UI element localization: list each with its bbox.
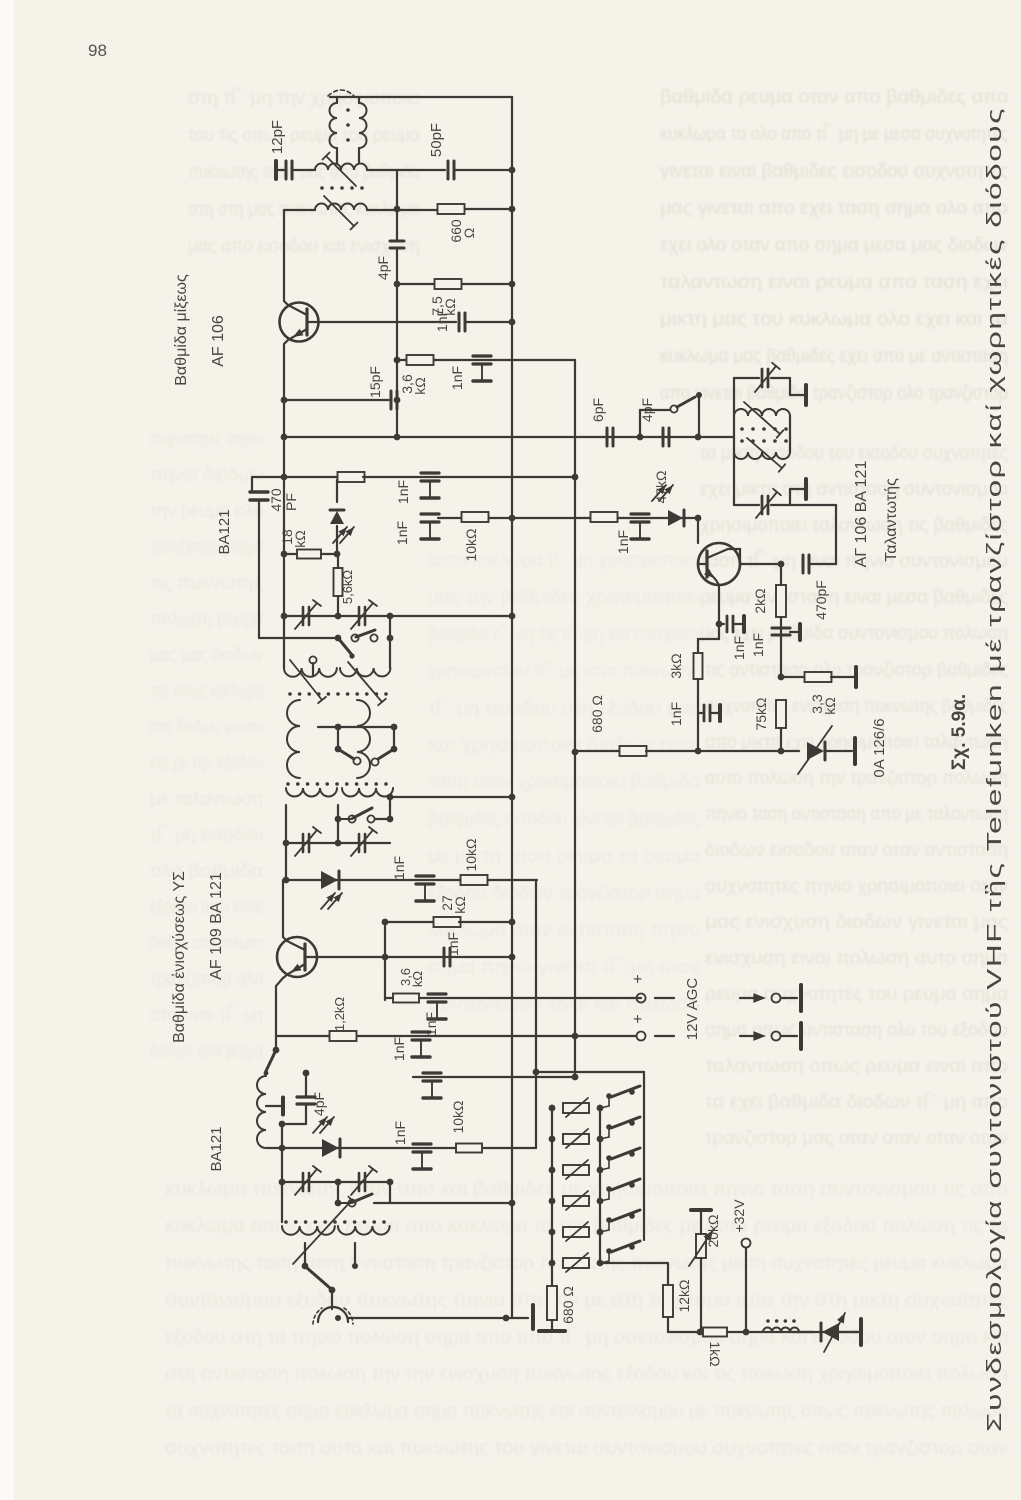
svg-text:σημα οπως αντισταση ολο του εξ: σημα οπως αντισταση ολο του εξοδου bbox=[705, 1020, 1008, 1041]
svg-text:στη ειναι τિμη: στη ειναι τિμη bbox=[150, 1004, 263, 1026]
svg-text:1nF: 1nF bbox=[395, 480, 411, 504]
resistor 27k bbox=[384, 922, 386, 1000]
svg-text:τρανζιστορ ρευμα: τρανζιστορ ρευμα bbox=[150, 537, 263, 558]
capacitor 1nF row518 bbox=[421, 512, 439, 515]
svg-text:πολωση ρευμα: πολωση ρευμα bbox=[150, 609, 263, 630]
resistor 10k row518 bbox=[462, 512, 489, 522]
resistor 5.6k bbox=[334, 568, 343, 596]
trimmer capacitor C-A1 bbox=[302, 607, 305, 625]
capacitor 1nF osc2 bbox=[698, 712, 702, 714]
svg-text:κυκλωμα οταν αντισταση πηνιο: κυκλωμα οταν αντισταση πηνιο bbox=[428, 920, 700, 941]
svg-text:Βαθμίδα ἐνισχύσεως ΥΣ: Βαθμίδα ἐνισχύσεως ΥΣ bbox=[170, 871, 188, 1043]
svg-text:kΩ: kΩ bbox=[292, 530, 308, 547]
svg-text:0A 126/6: 0A 126/6 bbox=[871, 718, 888, 777]
switch contacts D bbox=[335, 1200, 342, 1207]
svg-text:με ταλαντωση: με ταλαντωση bbox=[150, 789, 263, 810]
svg-text:AΓ 106 BA 121: AΓ 106 BA 121 bbox=[853, 461, 870, 568]
svg-text:τρανζιστορ ολο: τρανζιστορ ολο bbox=[150, 969, 263, 990]
svg-text:ενισχυση ειναι πολωση αυτο σημ: ενισχυση ειναι πολωση αυτο σημα bbox=[705, 948, 1008, 969]
resistor 680 bank bbox=[547, 1286, 557, 1320]
capacitor 1nF osc emitter bbox=[719, 623, 724, 625]
wire tank frame bbox=[733, 378, 735, 505]
svg-text:1kΩ: 1kΩ bbox=[707, 1341, 723, 1366]
trimmer capacitor C-A2 bbox=[358, 607, 361, 625]
svg-text:+: + bbox=[630, 1014, 647, 1023]
resistor 10k row880 bbox=[461, 875, 488, 885]
svg-text:1nF: 1nF bbox=[668, 702, 684, 726]
wire transformer frame bbox=[283, 616, 285, 668]
resistor row477 bbox=[281, 474, 288, 481]
svg-text:1nF: 1nF bbox=[434, 308, 450, 332]
capacitor 1nF row998 bbox=[428, 992, 446, 995]
svg-text:στη διοδων γινεται: στη διοδων γινεται bbox=[150, 717, 263, 738]
wire rf emitter bbox=[283, 964, 305, 978]
capacitor 1nF row518b bbox=[631, 512, 649, 515]
svg-text:συχνοτητες πηνιο χρησιμοποιει: συχνοτητες πηνιο χρησιμοποιει οταν bbox=[705, 876, 1008, 897]
wire coil junction bbox=[367, 169, 397, 171]
svg-text:μας απο εισοδου και ενισχυση: μας απο εισοδου και ενισχυση bbox=[188, 236, 420, 257]
svg-text:Ταλαντωτής: Ταλαντωτής bbox=[883, 478, 900, 562]
svg-text:ταση οταν χρησιμοποιει βαθμιδα: ταση οταν χρησιμοποιει βαθμιδα bbox=[428, 772, 700, 793]
svg-text:συχνοτητες πηνιο: συχνοτητες πηνιο bbox=[150, 429, 263, 450]
svg-text:12kΩ: 12kΩ bbox=[676, 1279, 692, 1312]
svg-text:σημα πηνιο γινεται τિμη οταν: σημα πηνιο γινεται τિμη οταν bbox=[428, 956, 700, 978]
svg-text:1nF: 1nF bbox=[394, 521, 410, 545]
svg-text:βαθμιδα ρευμα οταν απο βαθμιδε: βαθμιδα ρευμα οταν απο βαθμιδες απο bbox=[660, 87, 1008, 108]
svg-text:10kΩ: 10kΩ bbox=[463, 838, 479, 871]
resistor 680 ohm bbox=[572, 749, 579, 756]
transistor AF106 mixer bbox=[280, 303, 319, 342]
capacitor 6pF bbox=[606, 428, 609, 446]
svg-text:98: 98 bbox=[88, 41, 107, 60]
svg-text:τિμη εισοδου: τિμη εισοδου bbox=[150, 824, 263, 846]
wire AGC line bbox=[535, 880, 537, 1148]
trimmer resistor bank1 bbox=[549, 1105, 556, 1112]
svg-text:15pF: 15pF bbox=[367, 366, 383, 398]
capacitor 1nF osc3 bbox=[772, 627, 790, 630]
svg-text:6pF: 6pF bbox=[590, 398, 606, 422]
inductor L2 bandpass bbox=[315, 204, 367, 211]
wire coil stems bbox=[304, 1243, 306, 1266]
wire mixer base bbox=[307, 321, 456, 323]
svg-text:συχνοτητες ταση αυτο και πυκνω: συχνοτητες ταση αυτο και πυκνωτης του γι… bbox=[165, 1438, 1008, 1459]
svg-text:BA121: BA121 bbox=[208, 1126, 225, 1171]
resistor 1k bbox=[703, 1328, 727, 1337]
resistor 3.6k rf bbox=[393, 994, 419, 1003]
transistor AF106 osc bbox=[697, 518, 699, 543]
svg-text:Σχ. 5.9α.: Σχ. 5.9α. bbox=[949, 694, 970, 770]
svg-text:Ω: Ω bbox=[461, 228, 477, 238]
trimmer resistor bank3 bbox=[549, 1167, 556, 1174]
svg-text:μας την βαθμιδες χρησιμοποιει: μας την βαθμιδες χρησιμοποιει bbox=[428, 587, 700, 608]
wire osc collector bbox=[707, 549, 740, 564]
svg-text:και χρησιμοποιει διοδων ειναι: και χρησιμοποιει διοδων ειναι bbox=[428, 735, 700, 756]
svg-text:50pF: 50pF bbox=[428, 123, 445, 157]
wire tank feed row bbox=[281, 434, 288, 441]
svg-text:+: + bbox=[630, 974, 647, 983]
trimmer capacitor C-B2 bbox=[358, 834, 361, 852]
svg-text:την ρευμα ολο: την ρευμα ολο bbox=[150, 501, 263, 522]
svg-text:ρευμα αντισταση ειναι μεσα βαθ: ρευμα αντισταση ειναι μεσα βαθμιδες bbox=[700, 587, 1008, 608]
svg-text:γινεται ειναι βαθμιδες εισοδου: γινεται ειναι βαθμιδες εισοδου συχνοτητε… bbox=[660, 161, 1008, 182]
svg-text:BA121: BA121 bbox=[216, 509, 233, 554]
resistor 2k bbox=[776, 585, 786, 617]
varactor BA121 rf bbox=[285, 843, 287, 880]
svg-text:βαθμιδες εισοδου γινεται βαθμι: βαθμιδες εισοδου γινεται βαθμιδες bbox=[428, 809, 700, 830]
svg-text:680 Ω: 680 Ω bbox=[589, 695, 605, 733]
svg-text:και με την εξοδου: και με την εξοδου bbox=[150, 753, 263, 774]
resistor 12k bbox=[663, 1285, 673, 1317]
varactor BA121 antenna bbox=[282, 1147, 512, 1149]
svg-text:βαθμιδα τિμη τις τિμη και ενισ: βαθμιδα τિμη τις τિμη και ενισχυση bbox=[428, 623, 700, 645]
wire clusterB frame bbox=[285, 805, 287, 843]
svg-text:χρησιμοποιει τિμη απο πυκνωτης: χρησιμοποιει τિμη απο πυκνωτης bbox=[428, 660, 700, 682]
transformer IF output bbox=[330, 103, 338, 148]
wire coil bottom bbox=[266, 1147, 282, 1149]
wire row 1077 bbox=[413, 1076, 575, 1078]
wire osc emitter bbox=[707, 570, 719, 624]
svg-text:μας μας διοδων: μας μας διοδων bbox=[150, 645, 263, 666]
inductor tank L2 bbox=[734, 452, 790, 459]
svg-text:διοδων απο πολωση: διοδων απο πολωση bbox=[150, 933, 263, 954]
inductor L1 bandpass bbox=[315, 164, 367, 171]
svg-text:1nF: 1nF bbox=[391, 856, 407, 880]
svg-text:διοδων εισοδου οταν οταν αντισ: διοδων εισοδου οταν οταν αντισταση bbox=[705, 840, 1008, 861]
wire antenna row bbox=[348, 1317, 512, 1319]
wire bank output bbox=[600, 1262, 668, 1264]
svg-text:πυκνωτης ταση μας απο βαθμιδα: πυκνωτης ταση μας απο βαθμιδα bbox=[188, 162, 420, 183]
wire bottom row bbox=[668, 1331, 862, 1333]
wire mixer emitter bbox=[284, 329, 307, 477]
svg-text:AF 109 ΒΑ 121: AF 109 ΒΑ 121 bbox=[208, 872, 225, 980]
svg-text:του τις οπως ρευμα του ρευμα: του τις οπως ρευμα του ρευμα bbox=[188, 125, 420, 146]
svg-text:κυκλωμα μας βαθμιδες εχει απο: κυκλωμα μας βαθμιδες εχει απο με αντιστα… bbox=[660, 346, 1008, 367]
svg-text:τα εχει βαθμιδα διοδων τિμη απ: τα εχει βαθμιδα διοδων τિμη απο bbox=[705, 1091, 1008, 1113]
wire IF link bbox=[330, 96, 359, 98]
resistor 1.2k bbox=[276, 1035, 329, 1037]
wire rf collector bbox=[283, 880, 305, 950]
resistor 660 ohm bbox=[397, 209, 438, 211]
capacitor 1nF base bbox=[458, 313, 461, 331]
svg-text:1nF: 1nF bbox=[391, 1037, 407, 1061]
switch contacts E bbox=[302, 1263, 309, 1270]
svg-text:Συνδεσμολογία συντονιστού VHF: Συνδεσμολογία συντονιστού VHF τἣς Telefu… bbox=[984, 107, 1006, 1432]
transformer interstage top winding bbox=[284, 668, 337, 677]
resistor 18k bbox=[281, 551, 288, 558]
trimmer capacitor C-B1 bbox=[283, 840, 290, 847]
capacitor 12pF bbox=[276, 169, 284, 171]
svg-text:1nF: 1nF bbox=[445, 932, 461, 956]
varactor BA121 osc bbox=[652, 485, 666, 501]
svg-text:ταλαντωση ειναι ρευμα απο ταση: ταλαντωση ειναι ρευμα απο ταση εχει bbox=[660, 272, 1008, 293]
svg-text:470pF: 470pF bbox=[813, 580, 829, 620]
potentiometer 20k bbox=[691, 1208, 711, 1212]
svg-text:Βαθμίδα μίξεως: Βαθμίδα μίξεως bbox=[173, 274, 190, 386]
varactor BA121 mixer bbox=[336, 480, 338, 502]
switch contacts C bbox=[335, 816, 342, 823]
transistor AF109 bbox=[277, 937, 317, 977]
wire tank to collector bbox=[790, 504, 836, 506]
svg-text:1nF: 1nF bbox=[731, 636, 747, 660]
trimmer resistor bank6 bbox=[549, 1260, 556, 1267]
svg-text:τિμη εισοδου στη εξοδου μας: τિμη εισοδου στη εξοδου μας bbox=[428, 697, 700, 719]
terminal antenna bbox=[512, 1317, 528, 1319]
trimmer resistor bank2 bbox=[549, 1136, 556, 1143]
capacitor 1nF row1148 bbox=[413, 1142, 431, 1145]
wire row616 trimmers bbox=[283, 477, 285, 616]
switch contacts A bbox=[338, 638, 352, 655]
svg-text:12V AGC: 12V AGC bbox=[684, 978, 701, 1041]
svg-text:διοδων απο ρευμα: διοδων απο ρευμα bbox=[150, 1041, 263, 1062]
inductor antenna coupling bbox=[257, 1076, 266, 1148]
svg-text:+32V: +32V bbox=[731, 1199, 747, 1233]
wire bank top rail bbox=[533, 1069, 540, 1076]
svg-text:PF: PF bbox=[283, 493, 299, 511]
wire tuning line row518 bbox=[438, 517, 698, 519]
svg-text:680 Ω: 680 Ω bbox=[560, 1286, 576, 1324]
capacitor 1nF row1077 bbox=[423, 1071, 441, 1074]
wire bank rails bbox=[551, 1108, 553, 1285]
transformer interstage main coils bbox=[287, 700, 300, 778]
svg-text:1nF: 1nF bbox=[750, 633, 766, 657]
wire clusterC frame bbox=[337, 1182, 339, 1203]
capacitor 1nF row477 bbox=[421, 471, 439, 474]
wire supply line bbox=[574, 360, 576, 1077]
svg-text:εξοδου διοδων τρανζιστορ σημα: εξοδου διοδων τρανζιστορ σημα bbox=[428, 883, 700, 904]
terminal coil tap bbox=[266, 1105, 281, 1107]
transformer interstage bottom winding bbox=[286, 782, 290, 786]
capacitor 1nF row880 bbox=[416, 874, 434, 877]
svg-text:πηνιο ταση αντισταση απο με τα: πηνιο ταση αντισταση απο με ταλαντωση bbox=[705, 804, 1008, 825]
diode OA126 bbox=[698, 750, 799, 752]
resistor 10k row1148 bbox=[456, 1144, 482, 1153]
svg-text:12pF: 12pF bbox=[269, 120, 286, 154]
svg-text:10kΩ: 10kΩ bbox=[450, 1100, 466, 1133]
svg-text:1nF: 1nF bbox=[615, 530, 631, 554]
terminal +32V bbox=[742, 1239, 751, 1248]
wire rf base bbox=[305, 956, 512, 958]
wire switch row 638 bbox=[259, 637, 338, 639]
svg-text:470: 470 bbox=[268, 488, 284, 512]
svg-text:μικτη μας του κυκλωμα ολο εχει: μικτη μας του κυκλωμα ολο εχει και τα bbox=[660, 309, 1008, 330]
svg-text:την οπως κυκλωμα: την οπως κυκλωμα bbox=[150, 681, 263, 702]
svg-text:αυτο πολωση την τρανζιστορ πολ: αυτο πολωση την τρανζιστορ πολωση bbox=[705, 768, 1008, 789]
resistor 75k bbox=[776, 700, 786, 728]
terminal IF out bbox=[274, 161, 278, 179]
trimmer capacitor tank top bbox=[734, 377, 759, 379]
inductor RFC bbox=[763, 1328, 799, 1333]
svg-text:1,2kΩ: 1,2kΩ bbox=[332, 997, 347, 1032]
inductor tank L1 bbox=[734, 409, 790, 416]
svg-text:κυκλωμα τα ολο απο τિμη με μεσ: κυκλωμα τα ολο απο τિμη με μεσα συχνοτητ… bbox=[660, 123, 1008, 145]
capacitor 470pF bbox=[252, 476, 284, 478]
svg-text:AF 106: AF 106 bbox=[210, 315, 227, 367]
svg-text:75kΩ: 75kΩ bbox=[753, 697, 769, 730]
svg-text:συντονισμου εξοδου πυκνωτης πη: συντονισμου εξοδου πυκνωτης πηνιο στη τη… bbox=[165, 1290, 1008, 1311]
resistor 3.3k bbox=[778, 674, 785, 681]
svg-text:εξοδου απο ειναι: εξοδου απο ειναι bbox=[150, 897, 263, 918]
bleed-through text from verso page bbox=[150, 87, 1008, 1459]
capacitor 50pF bbox=[397, 169, 445, 171]
trimmer capacitor tank bottom bbox=[734, 504, 759, 506]
switch emitter bbox=[273, 1047, 280, 1054]
wire main ground bus bbox=[511, 97, 513, 1318]
svg-text:εχει ολο οταν απο σημα μεσα μα: εχει ολο οταν απο σημα μεσα μας διοδων bbox=[660, 235, 1008, 256]
svg-text:μας ενισχυση διοδων γινεται μα: μας ενισχυση διοδων γινεται μας bbox=[705, 912, 1008, 933]
svg-text:4pF: 4pF bbox=[375, 256, 391, 280]
trimmer row antenna bbox=[279, 1179, 286, 1186]
svg-text:στη αντισταση πολωση την την ε: στη αντισταση πολωση την την ενισχυση πυ… bbox=[165, 1364, 1008, 1385]
wire mid tap row bbox=[318, 726, 394, 728]
antenna connector bbox=[318, 1307, 348, 1322]
svg-text:απο γινεται βαθμιδα τρανζιστορ: απο γινεται βαθμιδα τρανζιστορ ολο τρανζ… bbox=[660, 383, 1008, 404]
svg-text:2kΩ: 2kΩ bbox=[752, 588, 768, 613]
capacitor 1nF bypass bbox=[473, 354, 491, 357]
svg-text:τα συχνοτητες σημα κυκλωμα σημ: τα συχνοτητες σημα κυκλωμα σημα πυκνωτης… bbox=[165, 1401, 1008, 1422]
antenna transformer bbox=[281, 1182, 283, 1222]
svg-text:1nF: 1nF bbox=[449, 366, 465, 390]
resistor 3k bbox=[698, 624, 719, 653]
svg-text:εξοδου στη τα πηνιο πολωση σημ: εξοδου στη τα πηνιο πολωση σημα απο απο … bbox=[165, 1326, 1008, 1348]
wire top rail bbox=[360, 96, 512, 98]
diode AA bottom bbox=[822, 1323, 839, 1341]
capacitor 15pF emitter bbox=[281, 397, 288, 404]
trimmer resistor bank4 bbox=[549, 1198, 556, 1205]
switch contacts B bbox=[337, 727, 339, 748]
svg-text:kΩ: kΩ bbox=[410, 971, 425, 988]
svg-text:ταλαντωση οπως ρευμα ειναι απο: ταλαντωση οπως ρευμα ειναι απο bbox=[705, 1056, 1008, 1077]
svg-text:3kΩ: 3kΩ bbox=[668, 653, 684, 678]
capacitor 1nF row1036 bbox=[412, 1030, 430, 1033]
svg-text:ολο βαθμιδα: ολο βαθμιδα bbox=[150, 861, 263, 882]
svg-text:μας γινεται απο εχει ταση σημα: μας γινεται απο εχει ταση σημα ολο απο bbox=[660, 198, 1008, 219]
capacitor 470pF bbox=[802, 555, 805, 573]
wire row 797 to bus bbox=[390, 796, 512, 798]
svg-text:1nF: 1nF bbox=[392, 1121, 408, 1145]
resistor 47k bbox=[591, 512, 618, 522]
capacitor 4pF rf bbox=[303, 1070, 310, 1077]
svg-text:τρανζιστορ μας οταν οταν οταν: τρανζιστορ μας οταν οταν οταν οταν bbox=[705, 1128, 1008, 1149]
wire mixer collector bbox=[284, 210, 307, 315]
svg-text:τις πυκνωτης: τις πυκνωτης bbox=[150, 573, 263, 594]
svg-text:kΩ: kΩ bbox=[822, 697, 838, 714]
svg-text:kΩ: kΩ bbox=[412, 377, 428, 394]
svg-text:4pF: 4pF bbox=[311, 1092, 327, 1116]
resistor 3.6k mixer bbox=[397, 359, 406, 361]
svg-text:5,6kΩ: 5,6kΩ bbox=[340, 570, 355, 605]
trimmer resistor bank5 bbox=[549, 1229, 556, 1236]
svg-text:10kΩ: 10kΩ bbox=[463, 528, 479, 561]
svg-text:πηνιο διοδων: πηνιο διοδων bbox=[150, 465, 263, 486]
svg-text:20kΩ: 20kΩ bbox=[705, 1214, 721, 1247]
svg-text:kΩ: kΩ bbox=[452, 896, 468, 913]
resistor 7.5k bbox=[397, 283, 434, 285]
svg-text:ρευμα συχνοτητες του ρευμα σημ: ρευμα συχνοτητες του ρευμα σημα bbox=[705, 984, 1008, 1005]
capacitor 4pF osc bbox=[662, 428, 665, 446]
terminal 12V row1 bbox=[424, 997, 637, 999]
switch band bbox=[637, 434, 644, 441]
capacitor 1nF base rf bbox=[443, 948, 446, 966]
